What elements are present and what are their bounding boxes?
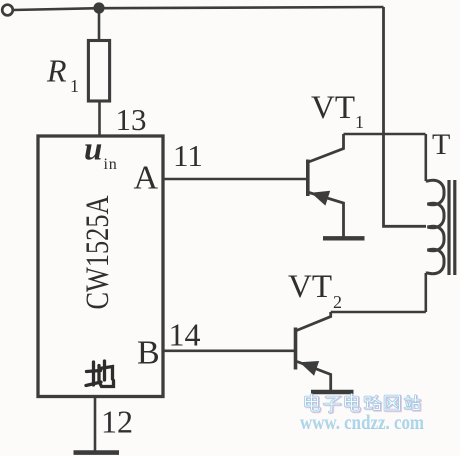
ground bar Q2 emitter bbox=[311, 390, 354, 394]
svg-text:11: 11 bbox=[173, 138, 203, 173]
transistor Q2 VT2 label bbox=[288, 269, 342, 312]
svg-text:R: R bbox=[46, 53, 67, 89]
resistor R1 bbox=[88, 41, 109, 102]
ground bar Q1 emitter bbox=[323, 236, 365, 240]
node A label bbox=[134, 160, 159, 197]
svg-text:12: 12 bbox=[101, 404, 133, 440]
svg-text:T: T bbox=[432, 128, 450, 161]
transformer core line 2 bbox=[453, 180, 456, 275]
pin label 12 bbox=[101, 404, 133, 440]
svg-text:13: 13 bbox=[116, 102, 147, 137]
svg-text:1: 1 bbox=[70, 76, 79, 96]
label R1 bbox=[46, 53, 79, 97]
wire top rail bbox=[13, 7, 384, 10]
transistor Q1 base bar bbox=[306, 160, 310, 197]
wire Q2 collector to transformer bbox=[331, 311, 426, 314]
wire Q1 collector to transformer bbox=[344, 133, 426, 136]
transistor Q2 emitter arrow bbox=[300, 361, 320, 376]
svg-text:2: 2 bbox=[333, 292, 342, 312]
svg-text:in: in bbox=[104, 156, 118, 173]
ground bottom bar bbox=[74, 450, 120, 455]
label GND (Chinese di) bbox=[86, 361, 114, 387]
pin 11 wire bbox=[164, 178, 307, 181]
transistor Q1 emitter arrow bbox=[311, 191, 330, 206]
transistor Q1 collector bbox=[309, 134, 344, 162]
svg-text:B: B bbox=[137, 335, 160, 372]
label u_in bbox=[84, 132, 118, 174]
transistor Q2 collector bbox=[297, 312, 331, 331]
transistor Q1 emitter bbox=[309, 193, 344, 237]
pin label 13 bbox=[116, 102, 147, 137]
svg-text:VT: VT bbox=[311, 90, 355, 126]
pin 12 wire bbox=[94, 397, 97, 453]
pin 14 wire bbox=[164, 349, 294, 352]
svg-text:14: 14 bbox=[169, 317, 201, 353]
svg-text:www. cndzz. com: www. cndzz. com bbox=[300, 409, 424, 433]
wire R1 to pin 13 bbox=[98, 101, 101, 136]
svg-text:1: 1 bbox=[355, 112, 364, 132]
transistor Q1 VT1 label bbox=[311, 90, 364, 132]
node B label bbox=[137, 335, 160, 372]
label T bbox=[432, 128, 450, 161]
svg-text:u: u bbox=[84, 132, 102, 168]
wire junction to R1 bbox=[98, 8, 101, 41]
svg-text:VT: VT bbox=[288, 269, 332, 305]
svg-text:CW1525A: CW1525A bbox=[80, 195, 116, 309]
op-amp U1 CW1525A box bbox=[38, 136, 163, 397]
wire supply rail down bbox=[384, 7, 427, 226]
transistor Q2 base bar bbox=[294, 328, 298, 370]
pin label 14 bbox=[169, 317, 201, 353]
pin label 11 bbox=[173, 138, 203, 173]
input terminal bbox=[2, 5, 13, 16]
transistor Q2 emitter bbox=[297, 362, 331, 391]
label CW1525A bbox=[80, 195, 116, 309]
transformer T primary winding bbox=[426, 180, 444, 273]
transformer core line 1 bbox=[447, 180, 450, 275]
node junction at R1 top bbox=[93, 2, 104, 13]
wire transformer bottom lead bbox=[424, 273, 427, 312]
wire transformer top lead bbox=[424, 134, 427, 181]
svg-text:A: A bbox=[134, 160, 159, 197]
watermark site name (Chinese) bbox=[307, 395, 421, 413]
